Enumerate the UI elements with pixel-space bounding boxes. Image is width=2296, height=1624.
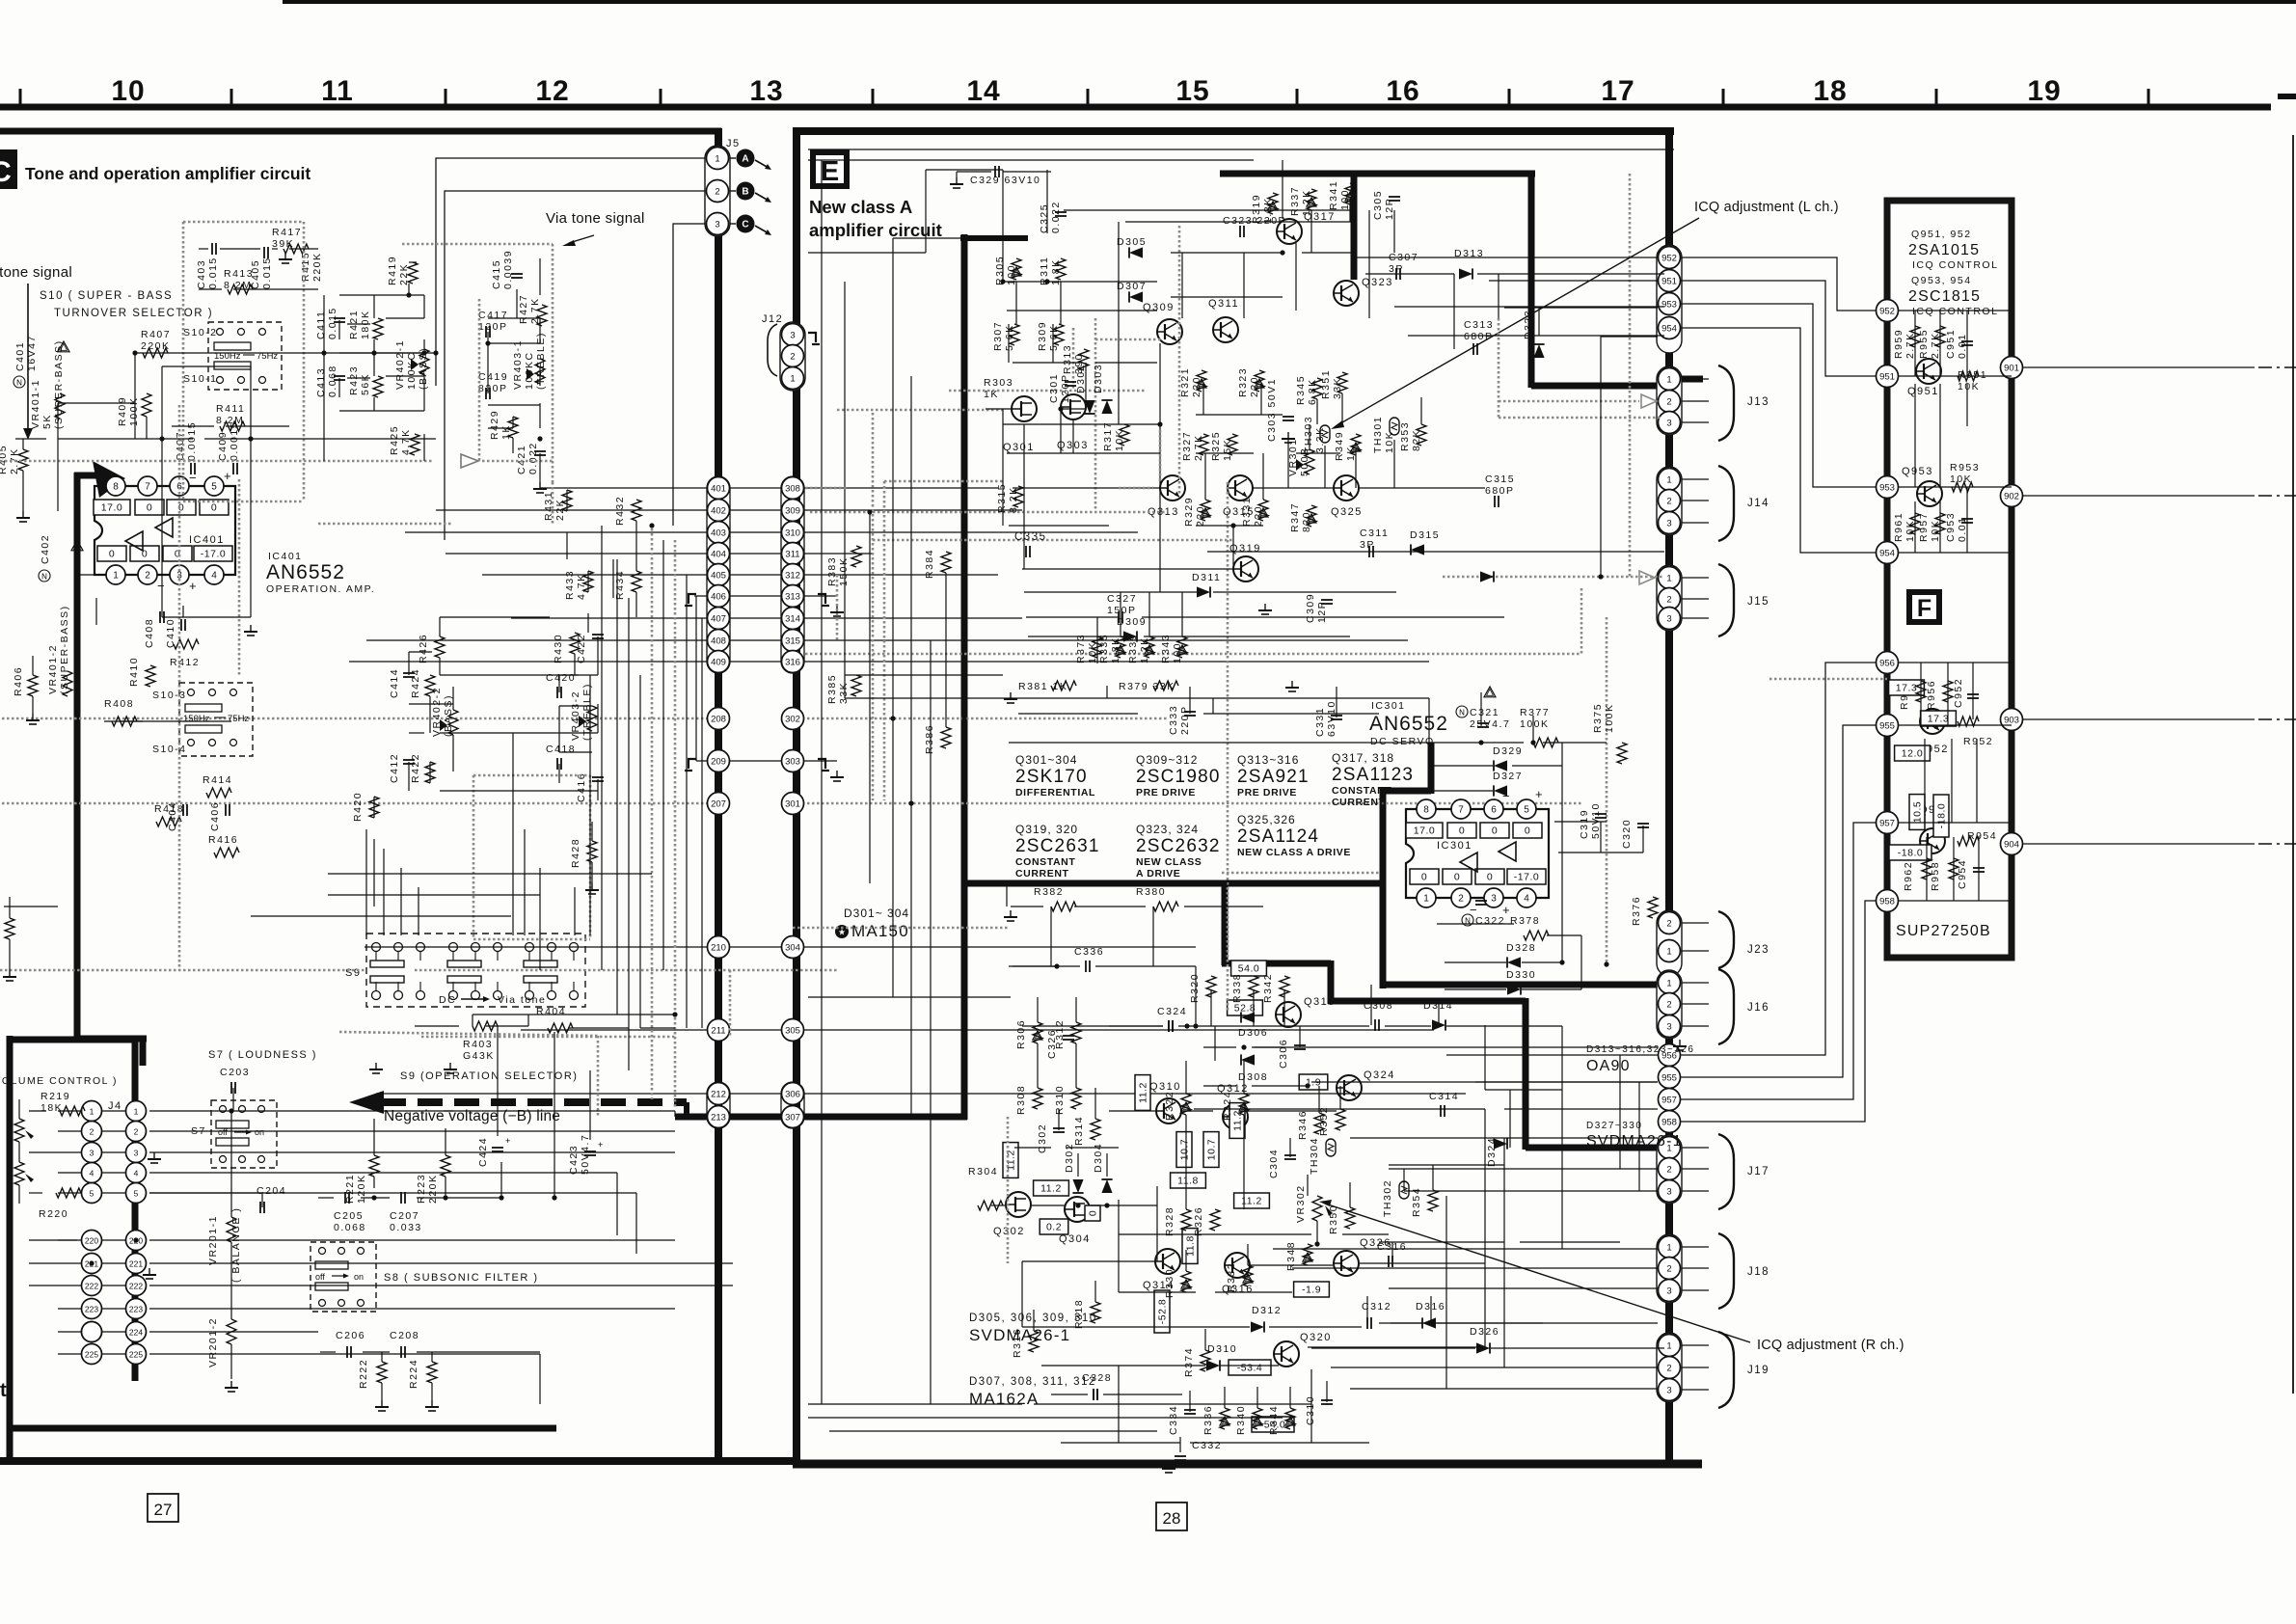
resistor R222 <box>358 1359 369 1389</box>
connector J14 pin 1 stub <box>1682 478 1709 480</box>
switch S8 dashed box <box>311 1242 376 1312</box>
svg-text:10K: 10K <box>1958 381 1980 392</box>
diode D326 label <box>1470 1326 1499 1338</box>
wire 904 to page edge <box>2023 843 2255 845</box>
svg-text:Q302: Q302 <box>993 1226 1025 1237</box>
ruler tick <box>1508 89 1511 104</box>
voltage 11.2 c <box>1003 1143 1018 1178</box>
diode D310 symbol <box>1206 1360 1220 1370</box>
voltage 10.7 a <box>1176 1132 1192 1168</box>
svg-text:50V4.7: 50V4.7 <box>580 1134 591 1175</box>
resistor R342 <box>1262 973 1274 1003</box>
pot VR201-1 symbol <box>227 1217 236 1242</box>
hatched run E mid y560 <box>873 539 1234 542</box>
svg-text:0: 0 <box>1421 872 1427 883</box>
connector J17 body outline <box>1657 1135 1682 1204</box>
svg-text:R308: R308 <box>1015 1085 1027 1115</box>
svg-text:-18.0: -18.0 <box>1936 803 1948 828</box>
capacitor C419 <box>478 371 508 394</box>
node 954 F edge <box>1877 542 1899 564</box>
svg-text:100K: 100K <box>1520 718 1550 730</box>
svg-text:VR201-2: VR201-2 <box>207 1317 219 1367</box>
resistor R308 symbol <box>1033 1088 1042 1109</box>
capacitor C951 <box>1945 329 1968 359</box>
svg-text:0: 0 <box>1454 872 1460 883</box>
connector J23 body outline <box>1657 910 1682 976</box>
svg-text:R336: R336 <box>1202 1405 1214 1435</box>
resistor R960 <box>1899 680 1910 710</box>
IC301 pin6 voltage <box>1480 823 1509 838</box>
resistor R426 symbol <box>435 636 445 658</box>
ground J4 row221 <box>149 1268 150 1275</box>
svg-text:1K: 1K <box>984 389 999 400</box>
capacitor C422 <box>576 634 587 663</box>
svg-text:R328: R328 <box>1164 1206 1175 1236</box>
diode D312 label <box>1252 1305 1282 1316</box>
IC401 pin 1 <box>106 565 125 584</box>
wire 951 staircase E to F <box>1681 281 1876 376</box>
feedback arrow bus horizontal top <box>74 473 100 479</box>
svg-text:5: 5 <box>1524 804 1529 815</box>
resistor R320 <box>1189 973 1201 1003</box>
resistor R351 symbol <box>1337 372 1347 393</box>
connector J4 row 223 wire <box>58 1308 136 1310</box>
FET Q303 <box>1057 394 1089 451</box>
resistor R341 <box>1328 180 1351 210</box>
switch S9 section 3 <box>524 943 579 1000</box>
svg-text:R428: R428 <box>570 838 581 868</box>
connector J19 pin 2 <box>1659 1357 1681 1379</box>
C321 N mark <box>1456 706 1468 717</box>
capacitor C421 symbol <box>534 450 546 452</box>
svg-text:150Hz: 150Hz <box>183 714 210 724</box>
warn triangle mark <box>1307 514 1316 523</box>
ruler bar end dash <box>2278 94 2296 99</box>
IC401 pin3 voltage <box>163 546 192 561</box>
connector J14 pin 2 stub <box>1682 500 1709 501</box>
connector J16 pin 2 <box>1659 993 1681 1015</box>
connector J19 pin 1 <box>1659 1335 1681 1357</box>
svg-text:R382: R382 <box>1034 886 1064 898</box>
test value 17.3 b <box>1921 711 1957 726</box>
connector J4 right pin 223 <box>126 1299 147 1319</box>
resistor R322 <box>1164 1091 1175 1121</box>
svg-text:CONSTANT: CONSTANT <box>1332 785 1391 797</box>
F letter <box>1906 589 1942 625</box>
node 310 <box>782 522 804 544</box>
resistor R322 symbol <box>1181 1094 1191 1115</box>
diode D305 label <box>1117 236 1147 248</box>
svg-text:R331: R331 <box>1241 497 1253 527</box>
svg-text:100KC: 100KC <box>524 351 535 390</box>
warn triangle mark <box>1255 379 1264 388</box>
svg-text:Q311: Q311 <box>1208 298 1239 310</box>
svg-text:CONSTANT: CONSTANT <box>1015 856 1075 868</box>
ground R382 <box>1010 910 1012 917</box>
svg-text:R332: R332 <box>1226 1262 1237 1292</box>
hatched vertical x1273 <box>1227 482 1229 1013</box>
capacitor C208 symbol <box>400 1346 402 1358</box>
svg-text:54.0: 54.0 <box>1238 963 1259 975</box>
diode D311 symbol <box>1197 586 1210 597</box>
warn triangle mark <box>1253 1417 1262 1425</box>
resistor R326 symbol <box>1210 1209 1220 1231</box>
ruler tick <box>230 89 233 104</box>
svg-text:50V10: 50V10 <box>1590 802 1602 839</box>
ground row406 E side <box>836 606 838 612</box>
connector J17 pin 1 <box>1659 1137 1681 1159</box>
resistor R378 symbol <box>1524 931 1549 940</box>
connector J13 pin 2 <box>1659 391 1681 413</box>
svg-text:C329 63V10: C329 63V10 <box>970 175 1040 186</box>
hatched vertical x620 <box>597 1036 600 1117</box>
page top edge line <box>283 0 2296 4</box>
svg-text:R344: R344 <box>1268 1405 1280 1435</box>
connector J18 pin 3 stub <box>1682 1289 1709 1291</box>
connector J4 row 1 wire <box>58 1110 136 1112</box>
svg-text:R423: R423 <box>348 365 360 395</box>
resistor R376 symbol <box>1648 897 1658 918</box>
potentiometer VR401-2 <box>47 605 70 694</box>
resistor R351 <box>1320 369 1343 399</box>
svg-text:0: 0 <box>1088 1210 1099 1216</box>
section C label box <box>0 149 17 189</box>
connector J23 pin 1 stub <box>1682 950 1709 952</box>
capacitor C307 <box>1389 252 1418 275</box>
resistor R421 <box>348 310 371 339</box>
diode D309 symbol <box>1123 631 1137 641</box>
svg-text:952: 952 <box>1661 253 1677 263</box>
resistor R312 symbol <box>1071 1022 1081 1043</box>
svg-text:R417: R417 <box>272 227 302 238</box>
resistor R219 symbol <box>60 1106 85 1116</box>
svg-text:956: 956 <box>1879 658 1895 668</box>
svg-text:2SC2632: 2SC2632 <box>1136 836 1221 856</box>
svg-text:4: 4 <box>1524 893 1529 904</box>
svg-text:207: 207 <box>711 798 726 809</box>
connector J4 row 4 wire <box>58 1172 136 1174</box>
type table Q301-304 <box>1015 753 1095 798</box>
page right edge line <box>2292 135 2294 1394</box>
section C top border <box>0 128 721 135</box>
connector J17 bracket <box>1718 1134 1734 1209</box>
svg-text:ICQ CONTROL: ICQ CONTROL <box>1912 306 1998 317</box>
node 955 F edge <box>1877 715 1899 737</box>
svg-text:R415: R415 <box>300 252 311 282</box>
wire row 209-303 <box>696 760 837 762</box>
resistor R380 symbol <box>1153 902 1178 911</box>
hatched arrow into J15-1 <box>1639 571 1655 584</box>
bus row 213-307 horizontal <box>675 1114 967 1121</box>
capacitor C314 symbol <box>1440 1105 1442 1117</box>
connector J4 row 224 wire <box>58 1331 136 1333</box>
connector J12 pin 1 <box>782 367 804 390</box>
resistor R410 symbol <box>146 665 155 687</box>
IC401 pin 3 <box>170 565 189 584</box>
svg-text:220K: 220K <box>141 340 171 352</box>
wire 901 to page edge <box>2023 366 2255 368</box>
svg-text:S10 ( SUPER - BASS: S10 ( SUPER - BASS <box>40 290 173 302</box>
capacitor C423 symbol <box>584 1150 596 1152</box>
capacitor C321 symbol <box>1477 722 1489 724</box>
ICQ adjustment R ch arrow <box>1319 1200 1332 1206</box>
IC401 pin 5 <box>204 476 224 496</box>
connector J4 right pin 221 <box>126 1254 147 1274</box>
svg-text:1: 1 <box>90 1106 95 1116</box>
capacitor C207 symbol <box>400 1192 402 1204</box>
svg-text:J18: J18 <box>1747 1266 1769 1278</box>
node 958 E edge <box>1659 1111 1681 1133</box>
IC401 pin7 voltage <box>135 500 164 515</box>
E region wiring mesh vertical <box>822 160 1643 1412</box>
wire row 403-310 <box>405 531 1138 533</box>
transistor Q311 <box>1208 298 1239 342</box>
hatched run y543 <box>318 523 453 526</box>
ground IC401 pin3 area <box>250 625 252 632</box>
warn triangle mark <box>1116 645 1125 654</box>
resistor R312 <box>1054 1019 1066 1049</box>
connector J15 pin 2 <box>1659 588 1681 610</box>
svg-text:A DRIVE: A DRIVE <box>1136 868 1180 880</box>
connector J4 left pin 223 <box>82 1299 102 1319</box>
svg-text:3: 3 <box>1666 613 1671 624</box>
svg-text:C320: C320 <box>1621 819 1633 849</box>
svg-text:953: 953 <box>1661 299 1677 310</box>
svg-text:N: N <box>16 379 22 388</box>
connector J15 pin 3 stub <box>1682 617 1709 619</box>
svg-text:R430: R430 <box>553 634 564 663</box>
IC301 pin 6 <box>1484 799 1503 819</box>
svg-text:Q320: Q320 <box>1300 1332 1332 1343</box>
diode D316 symbol <box>1422 1317 1436 1328</box>
svg-text:R346: R346 <box>1297 1110 1309 1140</box>
capacitor C412 symbol <box>403 759 415 761</box>
svg-text:S10-3: S10-3 <box>152 690 187 701</box>
warn triangle mark <box>1177 645 1187 654</box>
ruler tick <box>19 89 22 104</box>
connector J4 row 222 wire <box>58 1285 136 1286</box>
svg-text:14: 14 <box>966 75 1000 107</box>
svg-text:R303: R303 <box>984 377 1013 389</box>
switch S10 name label <box>40 290 213 319</box>
capacitor C407 symbol <box>190 463 192 474</box>
capacitor C409 <box>217 421 240 461</box>
svg-text:C327: C327 <box>1107 593 1137 605</box>
resistor R418 symbol <box>156 817 181 826</box>
bus IC301 corner vertical up <box>1428 743 1435 794</box>
svg-text:C335: C335 <box>1014 531 1047 543</box>
svg-text:5: 5 <box>211 481 217 492</box>
capacitor C420 symbol <box>556 687 558 698</box>
capacitor C305 <box>1372 190 1395 220</box>
resistor R346 <box>1297 1110 1309 1140</box>
connector J5 body outline <box>705 146 730 236</box>
hatched arrow y478 <box>461 454 478 468</box>
hatched vertical x917 <box>883 481 886 800</box>
svg-text:TH304: TH304 <box>1309 1137 1320 1175</box>
svg-text:901: 901 <box>2004 363 2019 373</box>
svg-text:18: 18 <box>1813 75 1847 107</box>
svg-text:2: 2 <box>145 570 150 581</box>
svg-text:120K: 120K <box>356 1174 367 1204</box>
svg-text:R427: R427 <box>518 294 529 324</box>
resistor R348 symbol <box>1303 1244 1312 1265</box>
wire 953 staircase E to F <box>1681 304 1876 487</box>
wire 957 staircase F to E <box>1681 823 1876 1099</box>
resistor R323 <box>1237 367 1260 397</box>
thick stub J13-1 <box>1682 376 1703 383</box>
potentiometer VR402-2 <box>431 687 454 737</box>
node 314 <box>782 608 804 630</box>
hatched run row208 left <box>0 969 365 972</box>
svg-text:R349: R349 <box>1334 431 1345 461</box>
node 901 F edge <box>2001 357 2023 379</box>
svg-text:C207: C207 <box>390 1210 419 1222</box>
bus step vertical x1582 <box>1523 998 1529 1150</box>
resistor R305 <box>994 256 1017 285</box>
node 311 <box>782 543 804 565</box>
resistor R422 <box>410 753 421 783</box>
ground C329 <box>956 177 958 184</box>
connector J14 pin 3 <box>1659 512 1681 534</box>
svg-text:D305: D305 <box>1117 236 1147 248</box>
F ICQ control 1 <box>1912 259 1998 271</box>
resistor R304 label <box>968 1166 998 1177</box>
warn triangle mark <box>1345 192 1355 201</box>
resistor R402 symbol <box>5 918 14 939</box>
resistor R344 symbol <box>1285 1408 1295 1429</box>
node 303 <box>782 750 804 772</box>
connector J5 pin 3 <box>707 213 729 235</box>
resistor R423 <box>348 365 371 395</box>
resistor R319 symbol <box>1268 193 1278 214</box>
svg-text:C413: C413 <box>315 367 327 397</box>
capacitor C407 <box>175 421 198 461</box>
resistor R309 <box>1037 321 1060 351</box>
resistor R315 <box>996 483 1019 513</box>
svg-text:R955: R955 <box>1918 329 1930 359</box>
svg-text:8: 8 <box>113 481 119 492</box>
capacitor C306 <box>1278 1039 1289 1069</box>
warn triangle mark <box>1351 443 1361 451</box>
svg-text:-17.0: -17.0 <box>201 549 226 560</box>
svg-text:150K: 150K <box>838 556 850 586</box>
connector J4 left pin 5 <box>82 1183 102 1204</box>
svg-text:R422: R422 <box>410 753 421 783</box>
warn triangle mark <box>1181 1102 1191 1111</box>
test value 12.0 <box>1895 745 1931 761</box>
svg-text:11.2: 11.2 <box>1232 1110 1244 1131</box>
connector J14 pin 1 <box>1659 469 1681 491</box>
svg-text:3: 3 <box>715 219 719 230</box>
svg-text:Q325,326: Q325,326 <box>1237 813 1296 826</box>
ruler tick <box>660 89 662 104</box>
IC301 pin1 voltage <box>1410 869 1439 884</box>
svg-text:27: 27 <box>154 1501 173 1519</box>
svg-text:4: 4 <box>134 1168 139 1177</box>
resistor R411 symbol <box>220 421 245 431</box>
connector J16 bracket <box>1718 969 1734 1044</box>
resistor R354 <box>1411 1187 1422 1217</box>
svg-text:D301~ 304: D301~ 304 <box>844 907 909 920</box>
svg-text:213: 213 <box>711 1112 726 1123</box>
svg-text:D303: D303 <box>1093 364 1104 393</box>
capacitor C402 <box>40 534 51 564</box>
svg-text:ICQ adjustment (L ch.): ICQ adjustment (L ch.) <box>1694 200 1839 215</box>
connector J18 body outline <box>1657 1234 1682 1303</box>
capacitor C335 symbol <box>1025 546 1027 557</box>
hatched long run y678 <box>805 653 1581 656</box>
resistor R402 <box>0 910 1 940</box>
warn triangle mark <box>1033 1031 1042 1040</box>
voltage 1.9 <box>1299 1074 1328 1090</box>
svg-text:PRE DRIVE: PRE DRIVE <box>1136 787 1196 798</box>
via tone signal arrow <box>569 235 594 243</box>
resistor R223 <box>416 1174 439 1204</box>
C322 N mark <box>1462 914 1473 926</box>
connector J4 right pin 1 <box>126 1101 147 1122</box>
transistor Q316 <box>1222 1253 1254 1295</box>
connector J4 left pin 2 <box>82 1122 102 1142</box>
diode D314 symbol <box>1432 1019 1445 1030</box>
warn triangle mark <box>1201 508 1210 517</box>
node 208 <box>708 708 730 730</box>
IC401 pin8 voltage <box>94 500 130 515</box>
svg-text:D327~330: D327~330 <box>1586 1121 1642 1131</box>
wire row 208-302 <box>2 717 718 720</box>
connector J18 bracket <box>1718 1233 1734 1309</box>
svg-text:212: 212 <box>711 1089 726 1099</box>
capacitor C952 <box>1953 678 1964 708</box>
wire 955 staircase F to E <box>1681 725 1876 1077</box>
svg-text:R348: R348 <box>1285 1241 1297 1271</box>
E letter <box>810 149 850 189</box>
resistor R345 <box>1295 375 1318 405</box>
svg-text:16V47: 16V47 <box>26 335 38 371</box>
svg-text:314: 314 <box>785 613 800 624</box>
svg-text:C310: C310 <box>1305 1395 1316 1425</box>
connector J4 left pin 221 <box>82 1254 102 1274</box>
connector capsule 306-307 <box>781 1082 804 1128</box>
svg-text:52.8: 52.8 <box>1234 1003 1256 1015</box>
transistor Q954 <box>1919 804 1951 853</box>
capacitor C401 <box>14 335 38 371</box>
ground R402 <box>9 970 11 977</box>
IC401 pin4 voltage <box>194 546 232 561</box>
feedback bus bottom vertical <box>140 1039 147 1066</box>
svg-text:R326: R326 <box>1193 1206 1204 1236</box>
negative voltage -B dashed bus <box>381 1098 687 1106</box>
resistor R335 <box>1098 634 1121 663</box>
svg-text:0.015: 0.015 <box>261 257 273 289</box>
capacitor C405 symbol <box>263 247 265 258</box>
IC301 pin5 voltage <box>1513 823 1542 838</box>
resistor R320 symbol <box>1206 976 1216 997</box>
resistor R419 symbol <box>408 262 418 284</box>
svg-text:953: 953 <box>1879 482 1895 493</box>
svg-text:G43K: G43K <box>463 1050 495 1062</box>
resistor R406 symbol <box>28 675 38 696</box>
svg-text:13: 13 <box>749 75 783 107</box>
resistor R311 symbol <box>1056 258 1066 280</box>
svg-text:R434: R434 <box>614 570 626 600</box>
svg-text:Via tone: Via tone <box>498 994 546 1006</box>
ground C335 area <box>1291 681 1293 688</box>
svg-text:1: 1 <box>1666 978 1671 988</box>
svg-text:33K: 33K <box>838 682 850 704</box>
wire to J5-2 <box>445 191 707 540</box>
hatched run y405 <box>949 390 1146 392</box>
